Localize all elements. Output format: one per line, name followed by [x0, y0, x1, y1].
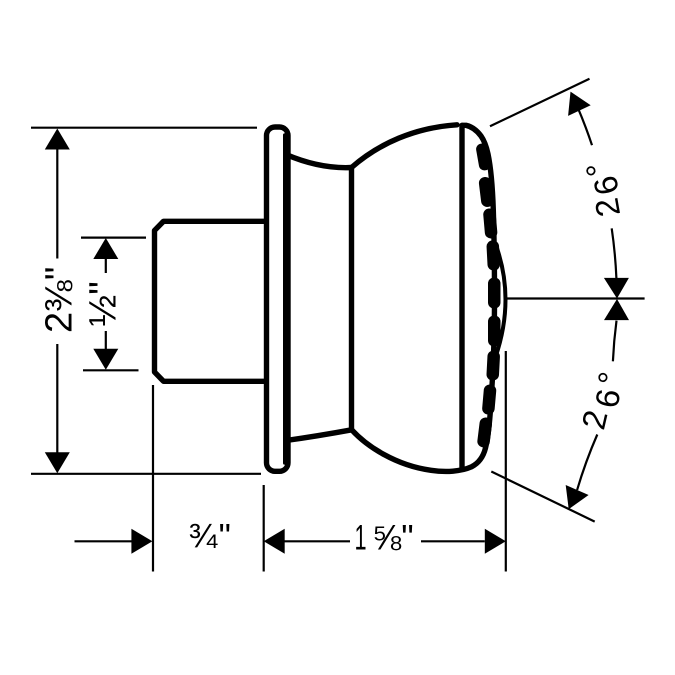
svg-text:¾": ¾": [189, 518, 233, 556]
svg-text:⅝": ⅝": [372, 518, 414, 557]
svg-text:½": ½": [83, 281, 125, 326]
svg-text:2⅜": 2⅜": [39, 267, 81, 333]
svg-text:1: 1: [355, 519, 367, 557]
